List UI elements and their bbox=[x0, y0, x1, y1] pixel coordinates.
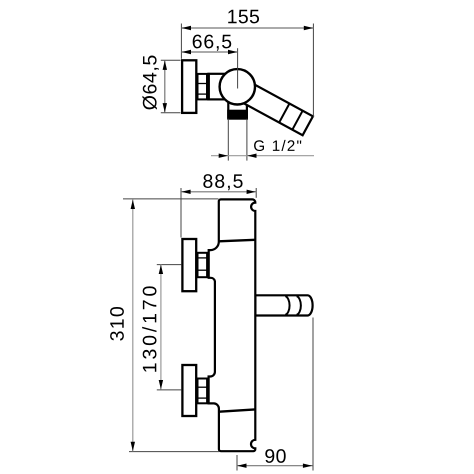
upper union nut bbox=[198, 253, 208, 277]
outlet tube extension right bbox=[246, 119, 248, 161]
arrow 88,5 right bbox=[247, 190, 256, 194]
label dia 64,5 bbox=[142, 56, 158, 110]
extension line 310 top bbox=[123, 198, 219, 200]
dimension line G 1/2 bbox=[211, 155, 314, 157]
arrow 66,5 left bbox=[182, 50, 191, 54]
arrow 130/170 bottom bbox=[159, 380, 163, 389]
dimension line 155 bbox=[181, 27, 313, 29]
dimension line 90 bbox=[237, 465, 313, 467]
extension line flange top bbox=[161, 59, 181, 61]
body lower seam bbox=[219, 409, 255, 411]
extension line 130/170 bottom bbox=[157, 389, 182, 391]
lower nut dividers bbox=[198, 387, 208, 398]
dimension line 88,5 bbox=[181, 191, 256, 193]
upper nut dividers bbox=[198, 258, 208, 270]
extension line 310 bottom bbox=[129, 451, 220, 453]
arrow G right (points left at tube right edge) bbox=[247, 154, 256, 158]
shower outlet tube bbox=[228, 100, 247, 119]
dimension line 130/170 bbox=[160, 265, 162, 390]
label 155 bbox=[228, 10, 259, 24]
upper wall flange bbox=[182, 239, 196, 291]
spout bbox=[255, 295, 312, 315]
arrow dia top bbox=[163, 61, 167, 70]
arrow 310 bottom bbox=[131, 442, 135, 451]
label 88,5 bbox=[203, 174, 242, 190]
label 310 bbox=[110, 307, 124, 341]
arrow 88,5 left bbox=[181, 190, 190, 194]
label 90 bbox=[265, 449, 285, 463]
arrow dia bottom bbox=[163, 103, 167, 112]
valve body thick left edge bbox=[207, 73, 210, 100]
extension line 90 right (spout tip) bbox=[312, 318, 314, 471]
label 130/170 bbox=[142, 286, 156, 371]
wall flange (side view) bbox=[182, 60, 196, 113]
lower wall flange bbox=[182, 365, 196, 416]
arrow 130/170 top bbox=[159, 265, 163, 274]
arrow 155 left bbox=[182, 26, 191, 30]
dimension line 310 bbox=[132, 199, 134, 451]
dimension line dia 64,5 bbox=[164, 60, 166, 112]
spout ring arc 2 bbox=[297, 296, 301, 315]
extension line left (wall plane) bbox=[180, 24, 182, 59]
extension line 88,5 left bbox=[180, 188, 182, 238]
handle lever bbox=[239, 82, 313, 135]
dimension line 66,5 bbox=[181, 51, 237, 53]
extension line 88,5 right bbox=[255, 188, 257, 198]
outlet tube extension left bbox=[227, 119, 229, 161]
arrow 90 left bbox=[237, 464, 246, 468]
spout ring arc 1 bbox=[285, 296, 289, 315]
arrow 155 right bbox=[304, 26, 313, 30]
outlet thread black band bbox=[227, 110, 248, 119]
lower union nut bbox=[198, 379, 208, 404]
arrow 90 right bbox=[303, 464, 312, 468]
label G 1/2" bbox=[254, 140, 301, 151]
extension line right (handle tip) bbox=[312, 24, 314, 118]
body top seam bbox=[219, 240, 256, 242]
valve body (behind knob) bbox=[209, 74, 238, 100]
extension line knob centre bbox=[237, 48, 239, 88]
extension line 90 left (body axis) bbox=[236, 455, 238, 471]
extension line 130/170 top bbox=[157, 264, 182, 266]
control knob circle bbox=[220, 69, 255, 104]
extension line flange bottom bbox=[161, 112, 181, 114]
nut divider lines bbox=[198, 84, 208, 95]
mixer body outline bbox=[209, 199, 256, 451]
union nut (side view, three bands) bbox=[198, 74, 208, 100]
label 66,5 bbox=[193, 35, 232, 51]
arrow 310 top bbox=[131, 200, 135, 209]
arrow G left (points right at tube left edge) bbox=[219, 154, 228, 158]
arrow 66,5 right bbox=[228, 50, 237, 54]
